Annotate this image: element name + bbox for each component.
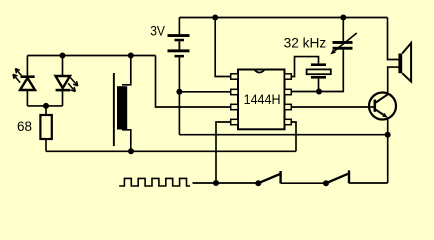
wire: trimmer top lead	[342, 18, 344, 42]
wire: LED D1 bottom lead	[26, 90, 28, 106]
wire: transducer top lead	[122, 56, 131, 85]
op-amp/IC U1 1444H body	[238, 70, 285, 130]
wire: stub to resistor R1	[45, 106, 47, 115]
wire: rail down to speaker top terminal	[388, 18, 399, 60]
IC U1 right pins 5-8	[285, 74, 292, 125]
svg-text:1444H: 1444H	[244, 92, 281, 107]
wire: ground row from battery minus to emitter node	[179, 134, 387, 136]
LED D2 (right, pointing down)	[56, 76, 71, 91]
node: junction rail / trimmer top	[340, 15, 346, 21]
node: junction transducer top	[128, 53, 134, 59]
wire: crystal bottom lead	[318, 79, 320, 92]
IC U1 notch	[255, 70, 265, 73]
node: junction supply rail / IC pin 1 feed	[212, 15, 218, 21]
crystal X1 32 kHz	[307, 63, 331, 78]
wire: emitter node down to switch S2 output	[387, 135, 389, 183]
wire: resistor bottom lead	[45, 139, 47, 151]
wire: to switch S1 pivot	[216, 182, 258, 184]
node: junction LED rail / D2	[60, 53, 66, 59]
wire: IC pin 4 (left bottom) down to clock node	[216, 122, 231, 183]
wire: battery negative lead down to pin2 node and ground row	[178, 57, 180, 135]
wire: LED D1 top lead	[26, 56, 28, 76]
IC U1 left pins 1-4	[231, 74, 238, 125]
speaker LS2	[398, 43, 411, 82]
LED D1 (left, pointing up)	[20, 75, 35, 90]
wire: IC pin 8 to crystal top	[291, 57, 319, 77]
wire: battery positive lead	[178, 18, 180, 35]
switch S1	[255, 171, 280, 186]
node: junction transducer bottom	[128, 148, 134, 154]
trimmer capacitor C1	[330, 33, 357, 54]
LED D2 light arrows	[68, 78, 78, 92]
wire: collector up to speaker bottom terminal	[388, 67, 399, 94]
transistor Q1 (NPN)	[369, 93, 396, 120]
wire: LED top rail	[27, 55, 155, 57]
svg-text:68: 68	[17, 119, 32, 134]
resistor R1	[40, 115, 51, 139]
wire: LED D2 top lead	[62, 56, 64, 77]
wire: bottom row to IC pin 5 riser	[46, 150, 296, 152]
wire: IC pin 6 to transistor base	[291, 106, 374, 108]
battery B1 3V	[168, 34, 190, 57]
wire: riser to IC pin 5 (right bottom)	[291, 122, 296, 151]
wire: top positive supply rail	[179, 17, 387, 19]
wire: switch S1 to switch S2	[281, 182, 326, 184]
node: junction emitter / ground row / switch return	[385, 132, 391, 138]
svg-text:32 kHz: 32 kHz	[284, 36, 327, 51]
wire: switch S2 output to emitter node riser	[349, 182, 388, 184]
switch S2	[323, 170, 349, 186]
wire: LED bottom link	[27, 105, 62, 107]
node: junction crystal bottom / pin 7 row	[316, 89, 322, 95]
wire: clock lead to junction	[193, 182, 217, 184]
wire: transducer bottom lead	[122, 130, 131, 152]
wire: stub to IC pin 2 (left)	[179, 91, 231, 93]
wire: corner down to IC pin 3 (left)	[156, 56, 232, 108]
wire: emitter down to ground node	[387, 118, 389, 135]
node: junction battery minus / IC pin 2	[176, 89, 182, 95]
clock square-wave symbol	[119, 178, 190, 186]
earphone / piezo transducer LS1	[113, 73, 127, 146]
wire: rail down to IC pin 1 (left)	[215, 18, 231, 77]
wire: IC pin 7 row to trimmer bottom	[291, 50, 343, 92]
node: junction LEDs / resistor	[43, 103, 49, 109]
svg-text:3V: 3V	[150, 24, 165, 39]
LED D1 light arrows	[13, 69, 23, 83]
wire: LED D2 bottom lead	[62, 91, 64, 106]
node: junction clock / pin 4 / switch S1	[213, 180, 219, 186]
